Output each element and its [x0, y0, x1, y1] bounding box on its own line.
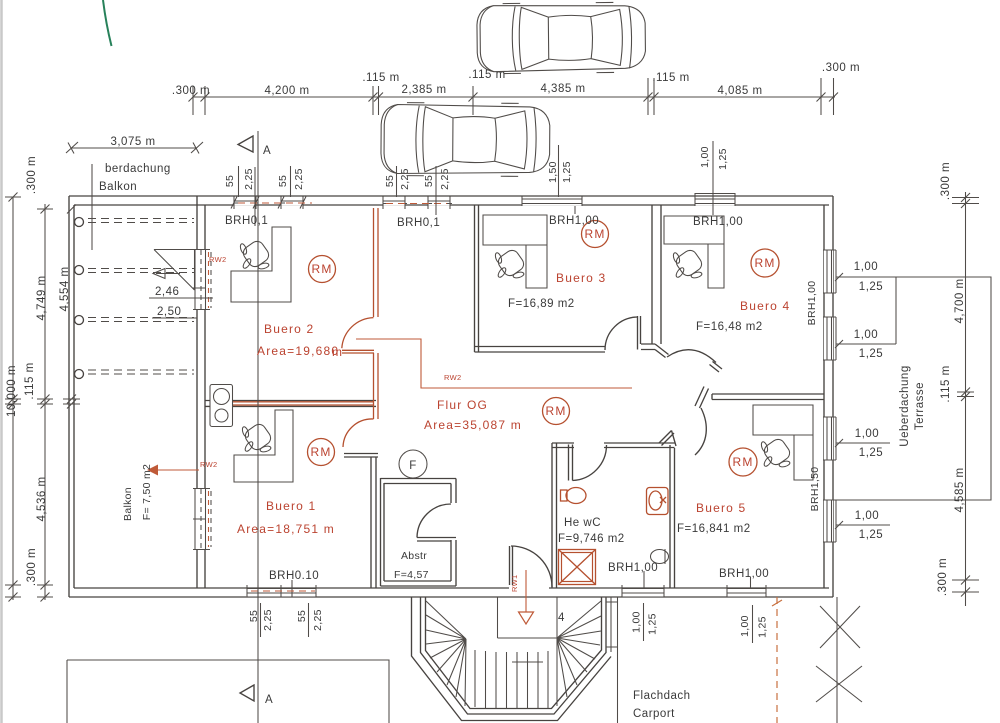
svg-text:.115 m: .115 m: [362, 72, 399, 84]
svg-text:55: 55: [248, 610, 260, 622]
fixture: toilet tank in He wC (red): [561, 490, 568, 501]
fixture: red sink on He wC right wall: [647, 488, 669, 515]
svg-text:F: F: [409, 460, 417, 472]
svg-text:.300 m: .300 m: [937, 558, 949, 596]
stairwell outer outline: [421, 597, 607, 714]
wire: top exterior wall outer line: [69, 195, 833, 197]
svg-text:BRH1,00: BRH1,00: [719, 568, 769, 580]
car 2 (lower): [381, 102, 550, 176]
svg-text:Buero 1: Buero 1: [266, 499, 316, 513]
svg-text:Buero 5: Buero 5: [696, 501, 746, 515]
dimension ticks on top line: [189, 78, 839, 115]
window: Buero2 balcony window (left wall): [194, 250, 207, 309]
door: Abstr door arc: [417, 504, 451, 538]
symbol: balcony sill triangle: [154, 250, 195, 291]
svg-text:1,25: 1,25: [717, 148, 729, 170]
svg-text:F=4,57: F=4,57: [394, 569, 429, 581]
wall: Abstr right wall upper: [451, 479, 456, 504]
wall: right exterior wall: [824, 196, 833, 597]
svg-text:1,25: 1,25: [561, 161, 573, 183]
wire: carport/terrace boundary line right: [836, 597, 838, 723]
window: Buero2 top window 1: [234, 197, 256, 206]
svg-text:F=16,48 m2: F=16,48 m2: [696, 321, 763, 333]
dimension: left inner vertical dim line: [44, 204, 46, 600]
furniture: Buero3 chair: [494, 248, 526, 279]
wall: left exterior wall (building): [197, 196, 205, 588]
svg-text:RM: RM: [754, 256, 775, 270]
svg-text:4,200 m: 4,200 m: [264, 85, 309, 97]
symbol: section marker A top: [238, 136, 253, 152]
carport outline bottom left: [67, 660, 389, 723]
svg-text:2,25: 2,25: [243, 168, 255, 190]
svg-text:1,00: 1,00: [854, 329, 878, 341]
fixture: kitchen unit in Buero2 wall: [210, 385, 233, 427]
svg-text:1,00: 1,00: [739, 615, 751, 637]
svg-text:1,25: 1,25: [757, 616, 769, 638]
svg-text:2,25: 2,25: [293, 168, 305, 190]
svg-text:Flur OG: Flur OG: [437, 398, 488, 412]
svg-text:2,25: 2,25: [262, 609, 274, 631]
furniture: Buero1 chair: [241, 422, 273, 453]
dimension: top main dimension line: [193, 96, 835, 98]
svg-text:F=16,89 m2: F=16,89 m2: [508, 298, 575, 310]
svg-text:55: 55: [423, 175, 435, 187]
door: stair door arc: [511, 546, 552, 587]
svg-text:F=16,841 m2: F=16,841 m2: [677, 523, 751, 535]
wall: He wC top wall right piece: [604, 443, 675, 448]
furniture: Buero5 desk: [753, 405, 813, 480]
window: Buero4 right wall window 1: [824, 250, 833, 293]
wire: balcony dashed floor lines row 4: [88, 370, 194, 374]
svg-text:BRH0,1: BRH0,1: [225, 215, 268, 227]
svg-text:RW1: RW1: [510, 575, 519, 592]
wire: orange dashed carport line: [776, 597, 778, 723]
furniture: Buero2 chair: [239, 239, 271, 270]
svg-text:2,385 m: 2,385 m: [401, 84, 446, 96]
svg-text:BRH1,50: BRH1,50: [809, 467, 821, 512]
svg-text:1,00: 1,00: [855, 428, 879, 440]
wall: Buero3 left wall: [475, 205, 479, 352]
svg-text:BRH1,00: BRH1,00: [549, 215, 599, 227]
wire: terrace dim line y525: [836, 524, 890, 526]
wall: Buero4/Buero5 divider wall: [712, 394, 824, 400]
svg-text:RM: RM: [545, 404, 566, 418]
wire: red escape dashes at Buero2 top windows: [238, 202, 312, 204]
window: Buero5 bottom window: [727, 589, 766, 597]
wall: Buero3/Buero4 divider wall: [652, 205, 661, 344]
svg-text:.300 m: .300 m: [26, 548, 38, 586]
door: Buero1 red door arc: [343, 419, 374, 447]
door: Buero3 door arc: [605, 317, 638, 350]
furniture: Buero5 chair: [760, 437, 792, 468]
wire: balcony dashed floor lines row 2: [88, 269, 194, 273]
smoke detector RM Buero4: [751, 249, 779, 277]
node: balcony post 3: [75, 316, 84, 325]
svg-text:BRH1,00: BRH1,00: [806, 281, 818, 326]
svg-text:2,25: 2,25: [312, 609, 324, 631]
svg-text:2,25: 2,25: [439, 168, 451, 190]
wall: Buero2 right red wall upper: [374, 208, 379, 317]
svg-text:RM: RM: [584, 227, 605, 241]
green plot boundary curve top left: [103, 0, 112, 46]
window: Flur top window 1: [383, 197, 405, 206]
wire: red escape dashes at Buero1 bottom window: [251, 590, 315, 592]
svg-text:Ueberdachung: Ueberdachung: [899, 365, 911, 446]
wire: balcony dashed floor lines row 3: [88, 318, 194, 322]
wire: terrace dim line y443: [836, 442, 890, 444]
svg-text:55: 55: [277, 175, 289, 187]
stairs: upper landing rectangle: [498, 597, 558, 638]
svg-text:RW2: RW2: [444, 373, 461, 382]
symbol: section marker A bottom: [240, 685, 254, 701]
wall: red overlay on Buero2/Buero1 divider: [233, 402, 374, 405]
svg-text:RM: RM: [732, 455, 753, 469]
svg-text:Buero 3: Buero 3: [556, 271, 606, 285]
window: Buero4 right wall window 2: [824, 317, 833, 360]
wall: Buero5 left / He wC right wall: [670, 445, 675, 588]
fixture: toilet bowl (red): [566, 488, 586, 504]
wall: Abstr top wall: [381, 479, 457, 484]
smoke detector RM Buero2: [309, 256, 336, 283]
svg-text:Flachdach: Flachdach: [633, 690, 691, 702]
svg-text:Abstr: Abstr: [401, 550, 427, 562]
door: Buero2 red door leaf: [342, 350, 374, 353]
stairs: right winder fan: [557, 601, 601, 706]
svg-text:4,536 m: 4,536 m: [36, 476, 48, 521]
svg-text:1,25: 1,25: [859, 447, 883, 459]
door: He wC door leaf: [569, 445, 573, 481]
svg-text:4,585 m: 4,585 m: [954, 467, 966, 512]
window: Buero5 right wall window 2: [824, 500, 833, 542]
door: stair door leaf: [510, 546, 513, 585]
svg-text:Buero 4: Buero 4: [740, 299, 790, 313]
furniture: Buero3 desk: [483, 215, 547, 288]
wall: Abstr right wall lower: [451, 540, 456, 586]
window: Flur top window 2: [428, 197, 450, 206]
svg-text:Balkon: Balkon: [122, 487, 134, 521]
door: Buero1 door leaf black: [344, 454, 378, 458]
svg-text:1,00: 1,00: [699, 146, 711, 168]
svg-text:4,085 m: 4,085 m: [717, 85, 762, 97]
svg-text:1,25: 1,25: [647, 613, 659, 635]
svg-text:F=9,746 m2: F=9,746 m2: [558, 533, 625, 545]
svg-text:.115 m: .115 m: [468, 69, 505, 81]
svg-text:1,25: 1,25: [859, 529, 883, 541]
window: He wC bottom window: [622, 589, 664, 597]
svg-text:1,00: 1,00: [855, 510, 879, 522]
car 1 (top): [477, 2, 646, 74]
svg-text:.115 m: .115 m: [652, 72, 689, 84]
door: Abstr door leaf: [417, 538, 456, 542]
window: Buero5 right wall window 1: [824, 417, 833, 460]
svg-text:Buero 2: Buero 2: [264, 322, 314, 336]
furniture: Buero1 desk: [234, 410, 293, 482]
symbol: X hatch mark 2 (demolition): [816, 666, 862, 702]
svg-text:RM: RM: [311, 262, 332, 276]
door: Buero5 door swing arc: [695, 408, 706, 455]
svg-text:He wC: He wC: [564, 517, 601, 529]
svg-text:BRH1,00: BRH1,00: [608, 562, 658, 574]
svg-text:2,50: 2,50: [157, 306, 181, 318]
scan edge artifact: [0, 0, 3, 723]
smoke detector RM Buero5: [729, 448, 757, 476]
dimension: 3,075 m line: [71, 147, 197, 149]
smoke detector RM Flur: [543, 398, 570, 425]
wall: stairwell right wall with window: [606, 597, 618, 723]
svg-text:BRH0.10: BRH0.10: [269, 570, 319, 582]
svg-text:.115 m: .115 m: [24, 362, 36, 399]
svg-text:BRH0,1: BRH0,1: [397, 217, 440, 229]
symbol: X hatch mark 1 (demolition): [820, 606, 860, 648]
wire: red dashed escape line in Buero1 balcony window: [208, 491, 210, 547]
svg-text:4,749 m: 4,749 m: [36, 275, 48, 320]
wall: Abstr left wall: [381, 478, 385, 586]
node: balcony post 4: [75, 370, 84, 379]
svg-text:berdachung: berdachung: [105, 163, 171, 175]
svg-text:55: 55: [224, 175, 236, 187]
smoke detector RM Buero1: [308, 439, 335, 466]
svg-text:4,554 m: 4,554 m: [59, 266, 71, 311]
wall: balcony left edge double line: [69, 196, 74, 597]
svg-text:Area=19,680: Area=19,680: [257, 344, 339, 358]
svg-text:2,25: 2,25: [399, 168, 411, 190]
wire: BRH pointer Buero3: [574, 206, 576, 214]
wire: BRH pointers bottom: [643, 571, 645, 588]
svg-text:Balkon: Balkon: [99, 181, 137, 193]
svg-text:.300 m: .300 m: [822, 62, 860, 74]
svg-text:m: m: [332, 345, 343, 359]
svg-text:BRH1,00: BRH1,00: [693, 216, 743, 228]
stairwell outer-outer left rim: [412, 597, 612, 721]
svg-text:.300 m: .300 m: [940, 162, 952, 200]
wall: bottom exterior wall: [69, 588, 833, 597]
svg-text:.300 m: .300 m: [172, 85, 210, 97]
svg-text:RM: RM: [310, 445, 331, 459]
stairs: middle handrail line: [512, 661, 543, 663]
fixture: wash basin black: [651, 550, 669, 564]
symbol: small arrow on balcony dashed row: [153, 269, 180, 279]
wall: Buero2/Buero1 divider wall: [205, 401, 376, 407]
wire: balcony dashed floor lines row 1: [88, 219, 194, 223]
door: stair door opening in bottom wall: [509, 585, 549, 596]
node: balcony post 2: [75, 266, 84, 275]
svg-text:A: A: [265, 694, 273, 706]
dimension: right vertical dim line: [965, 192, 967, 606]
wall: Buero2 right red wall lower: [374, 353, 379, 419]
wire: red dashed escape line in Buero2 balcony window: [208, 252, 210, 308]
door: Buero2 red door arc: [342, 318, 374, 349]
door: Buero5 door leaf diagonal: [659, 431, 676, 447]
furniture: Buero4 chair: [672, 248, 704, 279]
svg-text:55: 55: [296, 610, 308, 622]
stairs: straight flight step lines: [475, 650, 548, 709]
stairwell inner outline: [426, 597, 602, 709]
wall: Buero4 diagonal door jamb B: [710, 362, 723, 373]
svg-text:.300 m: .300 m: [26, 156, 38, 194]
symbol: red escape arrow to balcony at Buero1 window: [158, 469, 199, 471]
wall: Buero4 diagonal door jamb A: [655, 344, 669, 358]
svg-text:1,00: 1,00: [631, 611, 643, 633]
wall: Buero3 bottom wall: [475, 347, 606, 353]
svg-text:1,25: 1,25: [859, 348, 883, 360]
svg-text:55: 55: [384, 175, 396, 187]
svg-text:1,50: 1,50: [547, 161, 559, 183]
door: Buero3 door leaf: [638, 316, 641, 350]
svg-text:4: 4: [558, 612, 565, 624]
svg-text:Terrasse: Terrasse: [914, 382, 926, 430]
stairs: left winder fan: [426, 601, 466, 706]
furniture: Buero4 desk: [664, 216, 724, 288]
wire: red escape dashes at Flur top windows: [386, 203, 447, 205]
window: Buero2 top window 2: [281, 197, 303, 206]
svg-text:F= 7,50 m2: F= 7,50 m2: [141, 464, 153, 520]
door: Buero4 door swing arc: [667, 350, 716, 363]
wall: Buero3 bottom jamb piece: [641, 344, 655, 350]
wall: door stub between Buero4 and Buero5 doors: [695, 387, 709, 409]
node: balcony post 1: [75, 218, 84, 227]
svg-text:Area=18,751 m: Area=18,751 m: [237, 522, 335, 536]
svg-text:Carport: Carport: [633, 708, 675, 720]
svg-text:10,000 m: 10,000 m: [6, 365, 18, 417]
svg-text:2,46: 2,46: [155, 286, 179, 298]
svg-text:4,700 m: 4,700 m: [954, 278, 966, 323]
symbol: F circle near Abstr: [399, 450, 427, 478]
wire: terrace dim line y344: [836, 343, 896, 345]
svg-text:4,385 m: 4,385 m: [540, 83, 585, 95]
door: He wC door arc: [573, 445, 607, 481]
window: Buero4 top window: [695, 197, 735, 206]
svg-text:Area=35,087 m: Area=35,087 m: [424, 418, 522, 432]
wall: Buero1 right wall black: [371, 457, 376, 588]
wire: red escape route from Buero2 door: [356, 339, 632, 388]
wire: top exterior wall inner line: [74, 204, 829, 206]
svg-text:.115 m: .115 m: [940, 365, 952, 402]
dimension ticks on right line: [952, 193, 979, 597]
wall: He wC left wall: [552, 443, 557, 588]
smoke detector RM Buero3: [582, 221, 609, 248]
symbol: red escape arrow RW1 to stairs: [525, 570, 527, 612]
fixture: red hatched shaft square in He wC: [559, 550, 596, 585]
window: Buero1 bottom window: [246, 589, 316, 597]
wire: leader line below berdachung label: [91, 164, 93, 250]
svg-text:3,075 m: 3,075 m: [110, 136, 155, 148]
window: Buero3 top window: [522, 197, 582, 206]
wall: He wC top wall left piece: [552, 443, 574, 448]
furniture: Buero2 desk: [231, 227, 291, 302]
dimension ticks on left lines: [5, 193, 80, 602]
terrace outline right (Ueberdachung Terrasse): [836, 277, 991, 500]
window: Buero1 balcony window (left wall): [194, 489, 207, 549]
svg-text:1,00: 1,00: [854, 261, 878, 273]
svg-text:RW2: RW2: [209, 255, 226, 264]
wall: Abstr bottom wall: [381, 581, 457, 586]
svg-text:1,25: 1,25: [859, 281, 883, 293]
dimension: left outer vertical dim line (10,000 m): [12, 197, 14, 600]
svg-text:A: A: [263, 145, 271, 157]
svg-text:RW2: RW2: [200, 460, 217, 469]
section line A-A vertical: [257, 131, 259, 723]
